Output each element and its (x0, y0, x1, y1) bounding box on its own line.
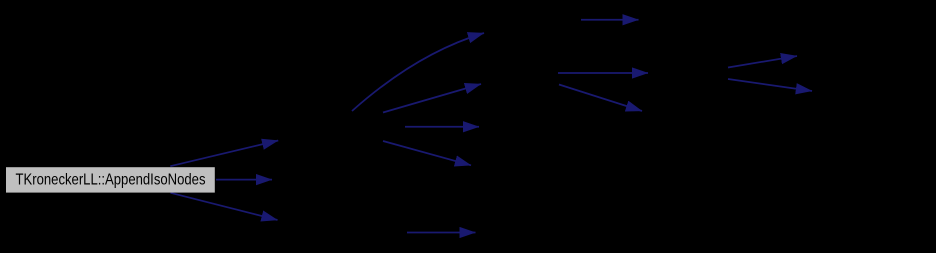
wire: edge node11 to node13 (728, 56, 797, 68)
wire: edge node4 to node9 (407, 232, 476, 234)
wire: edge from AppendIsoNodes to node3 (216, 179, 272, 181)
wire: edge node11 to node14 (728, 79, 812, 91)
svg-text:TKroneckerLL::AppendIsoNodes: TKroneckerLL::AppendIsoNodes (16, 172, 206, 189)
node TKroneckerLL::AppendIsoNodes (6, 167, 215, 192)
wire: edge node2 to node8 (383, 141, 471, 165)
wire: curved edge node2 to node5 (352, 33, 484, 111)
wire: edge node2 to node7 (405, 126, 479, 128)
wire: edge node6 to node12 (559, 85, 642, 112)
wire: edge from AppendIsoNodes to node2 (170, 141, 278, 167)
wire: edge from AppendIsoNodes to node4 (171, 193, 278, 220)
wire: edge node6 to node11 (558, 72, 648, 74)
wire: edge node5 to node10 (581, 19, 639, 21)
wire: edge node2 to node6 (383, 84, 481, 113)
